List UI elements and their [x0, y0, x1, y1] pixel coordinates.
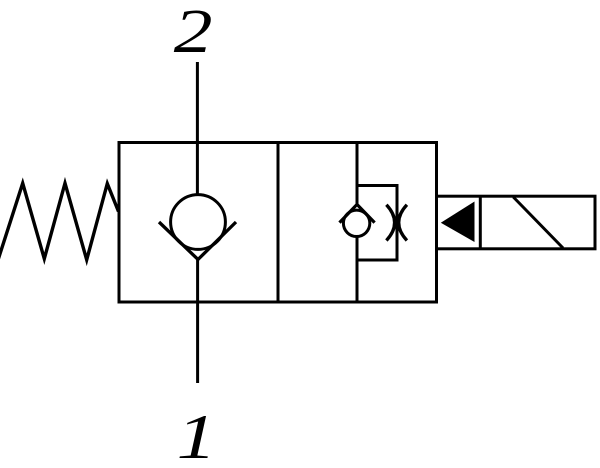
svg-text:1: 1 — [177, 401, 217, 468]
svg-text:2: 2 — [174, 0, 213, 66]
